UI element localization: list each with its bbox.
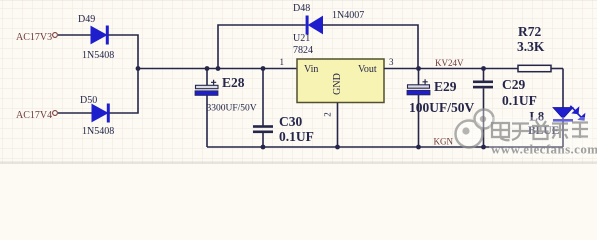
diode D48 [306,16,323,35]
wire pin2 down [337,103,339,147]
capacitor C30 [253,69,273,148]
wire R72 to LED [551,68,563,70]
voltage regulator U21 (7824) body [297,59,384,103]
svg-text:1N4007: 1N4007 [332,10,364,21]
svg-text:3: 3 [389,57,394,67]
wire AC17V3 to D49 [58,34,91,36]
wire through LED [562,69,564,148]
capacitor C29 [473,69,493,148]
junction C29 bottom [481,145,486,150]
svg-text:1N5408: 1N5408 [82,126,114,137]
watermark text chinese [492,121,588,140]
svg-text:1N5408: 1N5408 [82,50,114,61]
wire D50 to corner [110,68,139,113]
wire AC17V4 to D50 [58,112,92,114]
svg-text:GND: GND [332,73,343,95]
svg-text:0.1UF: 0.1UF [279,129,314,144]
wire main bus to U21 pin1 [138,68,297,70]
svg-text:R72: R72 [518,24,541,39]
watermark veil [489,117,593,157]
svg-text:1: 1 [280,57,285,67]
svg-text:AC17V4: AC17V4 [16,110,52,121]
svg-text:D50: D50 [80,95,97,106]
svg-text:KV24V: KV24V [435,58,464,68]
svg-text:C29: C29 [502,77,525,92]
LED L8 [553,106,584,122]
terminal AC17V4 [53,111,58,116]
junction at diodes [136,66,141,71]
svg-text:2: 2 [323,112,333,117]
wire up to top rail [218,25,306,69]
wire top rail right [322,25,418,69]
svg-text:KGN: KGN [434,137,454,147]
junction C30 top [261,66,266,71]
svg-text:7824: 7824 [293,45,313,56]
svg-text:AC17V3: AC17V3 [16,32,52,43]
svg-text:U21: U21 [293,33,310,44]
svg-text:D48: D48 [293,3,310,14]
terminal AC17V3 [53,33,58,38]
svg-text:www.elecfans.com: www.elecfans.com [491,142,597,157]
wire D49 to corner [109,35,139,68]
junction E28 [205,66,210,71]
svg-text:Vin: Vin [304,64,318,75]
svg-text:D49: D49 [78,14,95,25]
junction D48 branch [216,66,221,71]
svg-text:3.3K: 3.3K [517,39,545,54]
capacitor E29 [407,69,430,148]
svg-text:E28: E28 [222,75,245,90]
watermark logo [456,110,494,148]
svg-text:100UF/50V: 100UF/50V [409,100,474,115]
svg-text:Vout: Vout [358,64,377,75]
svg-text:3300UF/50V: 3300UF/50V [207,104,257,114]
resistor R72 [518,65,551,71]
capacitor E28 [195,69,218,148]
svg-text:0.1UF: 0.1UF [502,93,537,108]
junction C29 [481,66,486,71]
svg-text:E29: E29 [434,79,457,94]
bottom edge artifact [0,161,597,164]
junction pin2 bottom [335,145,340,150]
diode D49 [91,26,109,45]
junction E29 bottom [416,145,421,150]
wire pin3 to KV24V [384,68,518,70]
wire bottom bus KGN [207,146,563,148]
diode D50 [92,104,110,123]
svg-text:C30: C30 [279,114,302,129]
junction E29 [416,66,421,71]
junction C30 bottom [261,145,266,150]
